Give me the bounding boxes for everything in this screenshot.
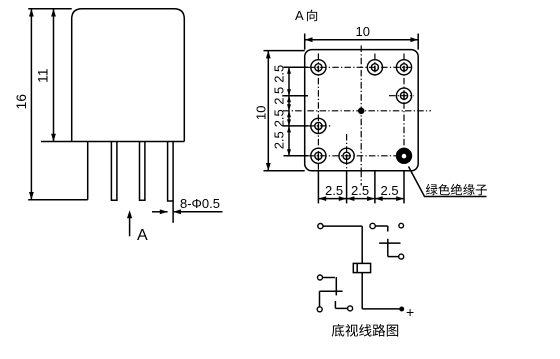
- relay coil: [353, 263, 370, 272]
- wire from terminal 5: [323, 277, 335, 279]
- label: green insulator (lv se jue yuan zi): [426, 184, 438, 195]
- pin A1 (terminal circle): [311, 60, 326, 75]
- left dimension line 10 with arrows: [267, 51, 269, 171]
- svg-text:2.5: 2.5: [272, 87, 287, 105]
- terminal 3 (open): [399, 223, 404, 228]
- right contact crossbar: [379, 242, 400, 244]
- vertical centerline below square: [360, 171, 362, 186]
- dimension line 16 with arrows: [30, 9, 32, 200]
- horizontal centerline: [283, 110, 431, 112]
- wire to terminal 7: [335, 307, 347, 309]
- svg-text:2.5: 2.5: [351, 183, 369, 198]
- left dim 10 extension lines: [264, 50, 305, 52]
- dimension line 11 with arrows: [53, 9, 55, 142]
- wire to terminal 4: [388, 256, 399, 258]
- pin 3: [140, 142, 145, 201]
- pin 4 right edge + extension line for pin diameter dim: [172, 142, 174, 223]
- terminal 2: [370, 223, 375, 228]
- svg-text:2.5: 2.5: [325, 183, 343, 198]
- row 2 centerline segment at right pin: [389, 95, 414, 97]
- svg-text:8-Φ0.5: 8-Φ0.5: [180, 196, 220, 211]
- contact stub down: [387, 226, 389, 232]
- terminal 6: [317, 307, 322, 312]
- svg-text:+: +: [406, 304, 414, 320]
- wire from terminal 1 to coil branch: [323, 225, 362, 227]
- vertical centerline: [360, 46, 362, 171]
- pin diameter dimension line right part with left arrow: [173, 211, 222, 213]
- svg-text:10: 10: [254, 106, 269, 120]
- row 4 centerline: [284, 155, 412, 157]
- center locating dot: [358, 108, 365, 115]
- svg-text:2.5: 2.5: [272, 131, 287, 149]
- leader line from green insulator: [409, 167, 487, 197]
- wire down to coil: [361, 226, 363, 263]
- top extension line for dims 16 and 11: [28, 8, 71, 10]
- wire from coil down: [361, 273, 363, 309]
- pin A7 (terminal circle): [339, 148, 354, 163]
- bottom extension line for dim 16: [28, 199, 87, 201]
- pin 1 (leftmost, single line): [87, 142, 89, 200]
- terminal 1 (top left): [318, 224, 323, 229]
- left contact vertical: [335, 277, 337, 295]
- terminal 5: [318, 275, 323, 280]
- wire down to terminal 6: [319, 291, 321, 307]
- column 3 centerline: [374, 54, 376, 79]
- caption: bottom view circuit diagram (di shi xian lu tu): [332, 324, 345, 337]
- junction dot at plus terminal: [399, 307, 404, 312]
- terminal 7: [348, 306, 353, 311]
- top dim 10 extension lines: [304, 34, 306, 50]
- pin 2: [111, 142, 117, 201]
- pin A2 (terminal circle): [367, 60, 382, 75]
- pin A4 (terminal circle): [396, 88, 411, 103]
- svg-text:16: 16: [13, 94, 29, 110]
- pin 4: [168, 142, 174, 202]
- left contact crossbar: [320, 290, 343, 292]
- pin A5 (terminal circle): [311, 118, 326, 133]
- pin diameter dimension line left part with right arrow: [152, 211, 168, 213]
- view direction arrow A: [129, 213, 131, 236]
- row 1 centerline: [284, 66, 412, 68]
- row 3 centerline segment at left pin: [308, 125, 332, 127]
- left row extension lines: [284, 66, 309, 68]
- right contact vertical: [387, 239, 389, 257]
- relay body outline (side view): [72, 9, 185, 142]
- column 1 centerline: [317, 54, 319, 171]
- svg-text:2.5: 2.5: [381, 183, 399, 198]
- column 4 centerline: [403, 54, 405, 165]
- terminal 4: [399, 254, 404, 259]
- wire from terminal 2: [375, 225, 388, 227]
- svg-text:A: A: [137, 227, 148, 244]
- green insulator pin (filled): [396, 148, 412, 164]
- bottom dim extension lines: [317, 171, 319, 204]
- bottom dimension line with arrows: [318, 198, 404, 200]
- pin A3 (terminal circle): [396, 60, 411, 75]
- left chain arrows: [287, 67, 291, 74]
- pin A6 (terminal circle): [311, 148, 326, 163]
- body bottom edge / extension line for dim 11: [41, 141, 184, 143]
- column 2 centerline: [346, 134, 348, 171]
- top dimension line 10 with arrows: [305, 39, 419, 41]
- bottom wire to plus terminal: [362, 308, 399, 310]
- left contact lower stub: [334, 301, 336, 309]
- A-view square body outline: [305, 50, 419, 171]
- left 2.5-chain dimension line: [288, 67, 290, 156]
- svg-text:11: 11: [35, 68, 51, 83]
- svg-text:2.5: 2.5: [272, 109, 287, 127]
- svg-text:A: A: [295, 8, 304, 23]
- svg-text:10: 10: [356, 24, 370, 39]
